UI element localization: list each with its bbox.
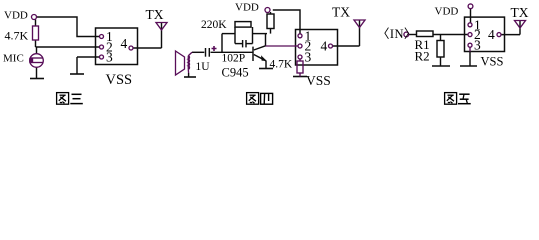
svg-text:VSS: VSS [306, 73, 331, 88]
svg-text:VDD: VDD [435, 6, 459, 18]
svg-text:4: 4 [488, 27, 495, 42]
svg-text:102P: 102P [222, 53, 246, 65]
svg-text:4.7K: 4.7K [270, 59, 293, 71]
svg-text:3: 3 [305, 50, 312, 65]
svg-text:4: 4 [321, 39, 328, 54]
svg-text:4.7K: 4.7K [5, 29, 29, 43]
svg-text:3: 3 [474, 38, 481, 53]
svg-text:VSS: VSS [481, 55, 504, 69]
svg-text:C945: C945 [222, 66, 249, 80]
svg-text:TX: TX [332, 5, 350, 20]
svg-text:4: 4 [121, 36, 128, 51]
svg-text:1U: 1U [196, 61, 211, 73]
svg-text:R2: R2 [415, 49, 430, 64]
svg-text:TX: TX [511, 5, 529, 20]
svg-text:MIC: MIC [3, 53, 24, 65]
svg-text:3: 3 [106, 50, 113, 65]
svg-text:220K: 220K [201, 19, 227, 31]
svg-text:〈IN〉: 〈IN〉 [377, 27, 417, 41]
svg-text:VDD: VDD [235, 2, 259, 14]
svg-text:VDD: VDD [4, 10, 28, 22]
svg-text:VSS: VSS [106, 72, 133, 88]
svg-text:TX: TX [146, 7, 164, 22]
